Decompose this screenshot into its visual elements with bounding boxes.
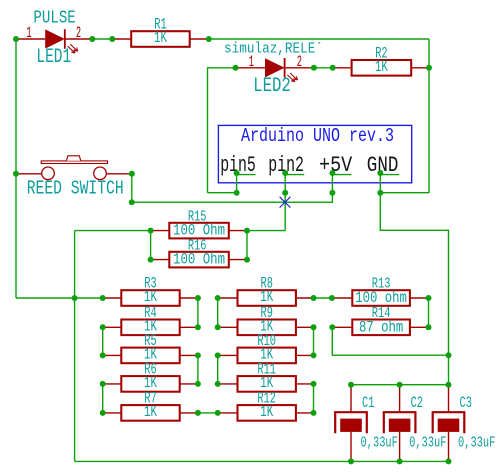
junction R16 left <box>148 257 154 263</box>
sheet pin label pin5 <box>220 152 256 178</box>
wire LED1 to R1 <box>92 38 112 40</box>
wire LED2 to R2 <box>314 67 333 69</box>
switch REED SWITCH <box>16 156 132 180</box>
label R9 <box>261 304 273 322</box>
value 100 Ohm of R15 <box>173 222 225 240</box>
resistor R1 <box>131 31 190 47</box>
resistor R10 <box>238 348 296 364</box>
junction R10 right <box>311 352 317 358</box>
junction left bus R3 row <box>72 295 78 301</box>
svg-text:C1: C1 <box>362 394 374 412</box>
wire R8 to R13 <box>314 297 332 299</box>
junction C3 top <box>446 382 452 388</box>
label R7 <box>144 390 156 408</box>
label R12 <box>257 390 276 408</box>
lead R11 left <box>218 383 238 385</box>
LED LED1 <box>16 29 92 53</box>
wire pin5 to LED2 branch <box>208 192 237 194</box>
sheet Arduino UNO box <box>218 125 411 182</box>
junction GND vertical <box>446 352 452 358</box>
svg-text:C2: C2 <box>411 394 423 412</box>
svg-text:REED SWITCH: REED SWITCH <box>27 178 124 200</box>
wire GND down out of sheet <box>379 173 381 193</box>
svg-text:0,33uF: 0,33uF <box>361 434 398 451</box>
pin number 2 of LED2 <box>297 53 302 71</box>
wire R3 row from left vertical <box>16 297 103 299</box>
lead R7 right <box>180 412 198 414</box>
label C2 <box>411 394 423 412</box>
value 1K of R3 <box>144 288 157 306</box>
wire pin2 down <box>284 193 286 231</box>
label C3 <box>460 394 472 412</box>
junction GND below sheet <box>377 190 383 196</box>
wire R11-R12 right join <box>313 384 315 413</box>
sheet pin GND connection <box>377 170 383 176</box>
junction R4 right <box>195 324 201 330</box>
resistor R13 <box>352 290 410 306</box>
wire reed right down <box>131 174 133 202</box>
wire left vertical main <box>15 39 17 298</box>
wire right vertical R2 to GND row <box>428 68 430 193</box>
svg-text:1K: 1K <box>154 29 167 47</box>
lead R12 right <box>296 412 314 414</box>
LED LED2 <box>236 58 314 82</box>
junction R7 left <box>100 410 106 416</box>
sheet pin pin5 stub <box>237 174 256 176</box>
pin number 1 of LED1 <box>26 24 31 42</box>
junction reed-+5V corner <box>129 199 135 205</box>
lead R9 left <box>218 326 238 328</box>
label C1 <box>362 394 374 412</box>
label R5 <box>144 332 156 350</box>
lead R11 right <box>296 383 314 385</box>
label R8 <box>261 275 273 293</box>
label R6 <box>144 361 156 379</box>
wire R15 left to left bus <box>75 230 151 232</box>
svg-text:1K: 1K <box>260 403 273 421</box>
capacitor C1 <box>335 385 367 462</box>
lead R15 right <box>229 230 247 232</box>
lead R1 right <box>190 38 209 40</box>
sheet pin GND stub <box>380 174 399 176</box>
junction R9 right <box>311 324 317 330</box>
junction R13 right <box>426 295 432 301</box>
svg-text:LED2: LED2 <box>253 75 291 98</box>
resistor R2 <box>352 60 412 76</box>
lead R10 left <box>218 354 238 356</box>
wire R10-R11 left join <box>217 355 219 384</box>
junction reed right <box>129 171 135 177</box>
wire R9-R10 right join <box>313 327 315 355</box>
lead R14 right <box>410 326 429 328</box>
lead R12 left <box>218 412 238 414</box>
lead R7 left <box>103 412 122 414</box>
resistor R15 <box>169 223 229 239</box>
sheet pin label pin2 <box>268 152 304 178</box>
lead R16 left <box>151 259 170 261</box>
value 1K of R6 <box>144 374 157 392</box>
resistor R5 <box>121 348 179 364</box>
lead R16 right <box>229 259 247 261</box>
wire R7 to R12 <box>198 412 218 414</box>
junction C1 bottom <box>348 458 354 464</box>
resistor R7 <box>121 405 179 421</box>
junction C2 top <box>397 382 403 388</box>
wire cap top rail <box>351 384 449 386</box>
junction R11 right <box>311 381 317 387</box>
svg-text:0,33uF: 0,33uF <box>409 434 446 451</box>
junction R5 right <box>195 352 201 358</box>
value 1K of R12 <box>260 403 273 421</box>
svg-text:2: 2 <box>76 24 81 42</box>
lead R5 right <box>180 354 198 356</box>
wire LED2 left corner <box>208 68 236 193</box>
junction node A top-left <box>13 36 19 42</box>
wire cap bottom rail <box>75 460 449 462</box>
wire R15-R16 left <box>150 231 152 260</box>
svg-text:1K: 1K <box>375 58 388 76</box>
resistor R8 <box>238 290 296 306</box>
label R11 <box>257 361 276 379</box>
sheet pin +5V stub <box>332 174 351 176</box>
resistor R3 <box>121 290 179 306</box>
wire pin2 down out of sheet <box>284 173 286 193</box>
junction R4 left <box>100 324 106 330</box>
value 0,33uF of C2 <box>409 434 446 451</box>
no-connect X marker <box>280 197 291 208</box>
wire GND down to right rail <box>380 193 448 385</box>
wire GND junction to R2 column <box>380 192 429 194</box>
label R10 <box>257 332 276 350</box>
capacitor C2 <box>384 385 416 462</box>
junction pin5 below sheet <box>234 190 240 196</box>
sheet pin label +5V <box>319 152 353 178</box>
svg-text:C3: C3 <box>460 394 472 412</box>
label LED1 <box>36 46 71 69</box>
svg-text:87 ohm: 87 ohm <box>359 319 403 337</box>
resistor R9 <box>238 320 296 336</box>
wire left bus vertical <box>74 231 76 462</box>
junction R7 right <box>195 410 201 416</box>
value 1K of R1 <box>154 29 167 47</box>
junction R1 right <box>206 36 212 42</box>
svg-text:PULSE: PULSE <box>33 8 75 29</box>
svg-text:2: 2 <box>297 53 302 71</box>
sheet pin +5V connection <box>329 170 335 176</box>
wire +5V down-left to reed <box>132 193 333 203</box>
svg-text:simulaz,RELE´: simulaz,RELE´ <box>224 40 323 57</box>
label R15 <box>188 208 207 225</box>
value 1K of R2 <box>375 58 388 76</box>
sheet name Arduino UNO rev.3 <box>241 125 394 147</box>
junction R15 right <box>244 228 250 234</box>
label R14 <box>372 305 391 322</box>
sheet pin pin2 connection <box>282 170 288 176</box>
junction R5 left <box>100 352 106 358</box>
label R2 <box>375 44 387 62</box>
junction R14 right <box>426 324 432 330</box>
junction R15 left <box>148 228 154 234</box>
pin number 1 of LED2 <box>249 53 254 71</box>
resistor R6 <box>121 376 179 392</box>
junction R9 left <box>215 324 221 330</box>
resistor R16 <box>169 252 229 268</box>
wire R15-R16 right <box>246 231 248 260</box>
junction C2 bottom <box>397 458 403 464</box>
label R13 <box>372 276 391 293</box>
resistor R11 <box>238 376 296 392</box>
sheet pin pin2 stub <box>285 174 304 176</box>
lead R1 left <box>112 38 131 40</box>
wire R1 to top-right corner <box>209 38 429 40</box>
junction R2 right <box>426 65 432 71</box>
lead R5 left <box>103 354 122 356</box>
lead R6 right <box>180 383 198 385</box>
value 1K of R8 <box>260 288 273 306</box>
junction LED2 left <box>233 65 239 71</box>
junction +5V below sheet <box>329 190 335 196</box>
junction R12 right <box>311 410 317 416</box>
wire pin5 down out of sheet <box>236 173 238 193</box>
wire R3-R4 right join <box>197 298 199 327</box>
resistor R14 <box>352 320 410 336</box>
svg-text:100 Ohm: 100 Ohm <box>173 251 225 269</box>
lead R15 left <box>151 230 170 232</box>
pin number 2 of LED1 <box>76 24 81 42</box>
resistor R4 <box>121 320 179 336</box>
wire R4-R5 left join <box>102 327 104 355</box>
wire +5V down out of sheet <box>331 173 333 193</box>
lead R13 right <box>410 297 429 299</box>
label LED2 <box>253 75 291 98</box>
lead R8 left <box>218 297 238 299</box>
value 1K of R7 <box>144 403 157 421</box>
junction C1 top <box>348 382 354 388</box>
junction R13 left <box>329 295 335 301</box>
wire R6-R7 left join <box>102 384 104 413</box>
lead R10 right <box>296 354 314 356</box>
junction R6 right <box>195 381 201 387</box>
lead R14 left <box>332 326 352 328</box>
value 1K of R10 <box>260 346 273 364</box>
label R4 <box>144 304 156 322</box>
junction R3 right <box>195 295 201 301</box>
junction LED1-R1 b <box>109 36 115 42</box>
junction R6 left <box>100 381 106 387</box>
label simulaz RELE <box>224 40 323 57</box>
label PULSE <box>33 8 75 29</box>
value 0,33uF of C3 <box>458 434 495 451</box>
value 1K of R4 <box>144 318 157 336</box>
lead R3 left <box>103 297 122 299</box>
label REED SWITCH <box>27 178 124 200</box>
junction R3 left <box>100 295 106 301</box>
label R1 <box>154 16 166 34</box>
junction R10 left <box>215 352 221 358</box>
value 100 ohm of R13 <box>355 289 407 307</box>
lead R4 right <box>180 326 198 328</box>
junction R11 left <box>215 381 221 387</box>
junction reed left <box>13 171 19 177</box>
resistor R12 <box>238 405 296 421</box>
lead R9 right <box>296 326 314 328</box>
lead R13 left <box>332 297 352 299</box>
junction R14 left <box>329 324 335 330</box>
junction pin2 below sheet <box>282 190 288 196</box>
value 1K of R5 <box>144 346 157 364</box>
label R3 <box>144 275 156 293</box>
value 87 ohm of R14 <box>359 319 403 337</box>
wire R14 left down to GND rail <box>332 327 448 355</box>
lead R2 left <box>333 67 352 69</box>
junction R8 right <box>311 295 317 301</box>
junction LED2-R2 b <box>330 65 336 71</box>
junction LED1-R1 a <box>89 36 95 42</box>
junction LED2-R2 a <box>311 65 317 71</box>
value 1K of R9 <box>260 318 273 336</box>
svg-text:LED1: LED1 <box>36 46 71 69</box>
lead R8 right <box>296 297 314 299</box>
wire R5-R6 right join <box>197 355 199 384</box>
capacitor C3 <box>433 385 465 462</box>
lead R3 right <box>180 297 198 299</box>
svg-text:Arduino UNO rev.3: Arduino UNO rev.3 <box>241 125 394 147</box>
value 1K of R11 <box>260 374 273 392</box>
junction R12 left <box>215 410 221 416</box>
svg-text:0,33uF: 0,33uF <box>458 434 495 451</box>
lead R4 left <box>103 326 122 328</box>
wire R15 right to pin2 column <box>247 230 285 232</box>
junction R8 left <box>215 295 221 301</box>
sheet pin label GND <box>367 152 399 178</box>
wire R8-R9 left join <box>217 298 219 327</box>
value 100 Ohm of R16 <box>173 251 225 269</box>
lead R6 left <box>103 383 122 385</box>
wire R13-R14 right join <box>428 298 430 327</box>
value 0,33uF of C1 <box>361 434 398 451</box>
lead R2 right <box>411 67 429 69</box>
junction C3 bottom <box>446 458 452 464</box>
wire right vertical to R2 row <box>428 39 430 68</box>
svg-text:1K: 1K <box>144 403 157 421</box>
sheet pin pin5 connection <box>234 170 240 176</box>
label R16 <box>188 237 207 254</box>
junction R16 right <box>244 257 250 263</box>
